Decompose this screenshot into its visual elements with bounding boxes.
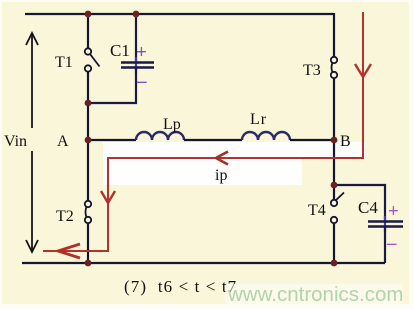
inductor Lr <box>242 132 290 140</box>
transistor switch T1 <box>85 48 100 71</box>
red arrowhead left on ip line <box>216 152 228 165</box>
svg-text:+: + <box>136 42 147 63</box>
svg-text:C4: C4 <box>358 198 378 217</box>
wire C4 node to T4 <box>333 185 335 200</box>
svg-text:Lr: Lr <box>250 111 267 128</box>
node A dot <box>85 137 92 144</box>
wire B down to C4 node <box>333 140 335 185</box>
red arrowhead down on left vertical <box>101 191 115 203</box>
wire Lp to Lr <box>184 139 242 141</box>
svg-text:T3: T3 <box>303 62 321 79</box>
wire node down to A <box>87 103 89 140</box>
capacitor C4 blue stem <box>384 216 386 232</box>
wire bottom rail <box>22 262 385 264</box>
Vin arrow <box>26 33 38 252</box>
wire A to Lp <box>88 139 136 141</box>
node dot top rail at T1 <box>85 11 92 18</box>
node dot top rail at C1 <box>133 11 140 18</box>
wire T3 to B <box>333 78 335 140</box>
capacitor C4 <box>368 222 403 227</box>
capacitor C1 <box>121 63 154 68</box>
wire T4 to bottom rail <box>333 223 335 263</box>
wire C1 bottom to T1 node <box>88 69 136 104</box>
svg-text:(7) t6 < t < t7: (7) t6 < t < t7 <box>124 277 237 296</box>
svg-text:T4: T4 <box>308 202 326 219</box>
svg-text:ip: ip <box>215 167 227 184</box>
svg-text:C1: C1 <box>110 41 130 60</box>
capacitor C1 branch: wire from top rail down <box>135 14 137 61</box>
wire Lr to B <box>290 139 334 141</box>
inductor Lp <box>136 132 184 140</box>
capacitor C1 blue stem <box>135 57 137 73</box>
wire right branch: top rail corner down to T3 <box>333 13 335 57</box>
wire top rail <box>25 13 334 15</box>
svg-text:T2: T2 <box>56 208 74 225</box>
svg-text:www.cntronics.com: www.cntronics.com <box>227 283 403 306</box>
transistor switch T3 <box>331 57 337 78</box>
node dot T1-C1 junction <box>85 100 92 107</box>
wire A down to T2 <box>87 140 89 201</box>
white patch under ip current path <box>103 142 365 185</box>
red current path right vertical <box>43 12 363 251</box>
svg-text:+: + <box>388 201 399 222</box>
node dot bottom rail at T4 <box>331 260 338 267</box>
svg-text:B: B <box>340 133 351 150</box>
wire left branch upper (top rail to T1) <box>87 13 89 48</box>
node B dot <box>331 137 338 144</box>
transistor switch T2 <box>85 201 91 223</box>
capacitor C4 branch top wire <box>334 185 385 220</box>
wire T2 to bottom rail <box>87 223 89 263</box>
node dot bottom rail at T2 <box>85 260 92 267</box>
red arrowhead down on right line <box>355 64 371 77</box>
svg-text:Lp: Lp <box>163 116 181 133</box>
transistor switch T4 <box>331 193 344 224</box>
svg-text:–: – <box>136 71 147 92</box>
node dot C4 junction <box>331 182 338 189</box>
svg-text:T1: T1 <box>55 54 73 71</box>
svg-text:A: A <box>57 133 69 150</box>
watermark www.cntronics.com <box>225 284 403 304</box>
svg-text:–: – <box>386 233 397 254</box>
wire T1 to node <box>87 72 89 104</box>
wire C4 bottom to bottom rail <box>384 228 386 264</box>
svg-text:Vin: Vin <box>4 133 27 150</box>
red arrowhead left on bottom line <box>58 244 80 258</box>
